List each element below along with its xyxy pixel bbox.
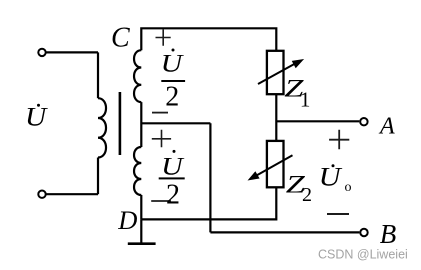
terminal A <box>360 118 367 125</box>
polarity - (output Uo) <box>327 213 349 215</box>
wire (center tap to B branch) <box>141 122 210 124</box>
wire (node A output) <box>276 120 359 122</box>
polarity - (lower half winding) <box>151 200 171 202</box>
svg-text:1: 1 <box>300 87 311 111</box>
polarity + (upper half winding) <box>156 29 171 45</box>
svg-text:CSDN @Liweiei: CSDN @Liweiei <box>318 248 408 262</box>
wire (node B output) <box>210 231 359 233</box>
fraction bar (upper U/2) <box>161 80 185 82</box>
wire (top rail: node C to Z1 top) <box>141 28 276 51</box>
wire (secondary middle segment through center tap) <box>140 102 142 147</box>
svg-text:2: 2 <box>165 81 179 112</box>
terminal (primary bottom input) <box>38 191 45 198</box>
wire (primary bottom lead) <box>97 158 99 195</box>
wire (bottom rail: node D to Z2 bottom) <box>141 187 276 219</box>
terminal B <box>360 229 367 236</box>
arrowhead Z1 <box>293 60 303 68</box>
dot over lower U/2 <box>173 150 176 153</box>
svg-text:B: B <box>380 219 397 249</box>
polarity - (upper half winding) <box>152 112 168 114</box>
wire (bottom terminal to primary) <box>46 193 98 195</box>
svg-text:2: 2 <box>302 184 312 206</box>
terminal (primary top input) <box>38 49 45 56</box>
polarity + (output Uo) <box>329 130 349 150</box>
svg-text:U: U <box>25 102 49 131</box>
dot over U (primary) <box>37 104 40 107</box>
arrowhead Z2 <box>249 172 259 180</box>
svg-text:C: C <box>111 22 130 53</box>
transformer core <box>119 92 122 155</box>
dot over Uo <box>332 164 335 167</box>
svg-text:U: U <box>161 152 184 181</box>
wire (secondary bottom lead to node D) <box>140 195 142 219</box>
arrow (Z1 variable) <box>258 62 298 84</box>
polarity + (lower half winding) <box>152 130 171 148</box>
svg-text:U: U <box>161 49 184 78</box>
ground <box>140 219 142 243</box>
svg-text:2: 2 <box>166 180 180 211</box>
wire (center tap branch down to B) <box>209 123 211 232</box>
transformer secondary upper winding <box>134 50 141 102</box>
svg-text:U: U <box>319 163 344 192</box>
svg-text:A: A <box>378 114 395 140</box>
fraction bar (lower U/2) <box>159 177 185 179</box>
svg-text:D: D <box>117 205 137 235</box>
dot over upper U/2 <box>172 49 175 52</box>
svg-text:o: o <box>345 180 352 195</box>
wire (primary top lead) <box>97 52 99 98</box>
wire (top terminal to primary) <box>46 51 98 53</box>
transformer secondary lower winding <box>134 147 141 195</box>
wire (Z1 bottom to Z2 top through node A junction) <box>275 94 277 141</box>
impedance Z2 body <box>267 141 284 187</box>
transformer primary winding <box>98 98 106 157</box>
impedance Z1 body <box>267 51 284 94</box>
arrow (Z2 variable) <box>256 155 293 176</box>
